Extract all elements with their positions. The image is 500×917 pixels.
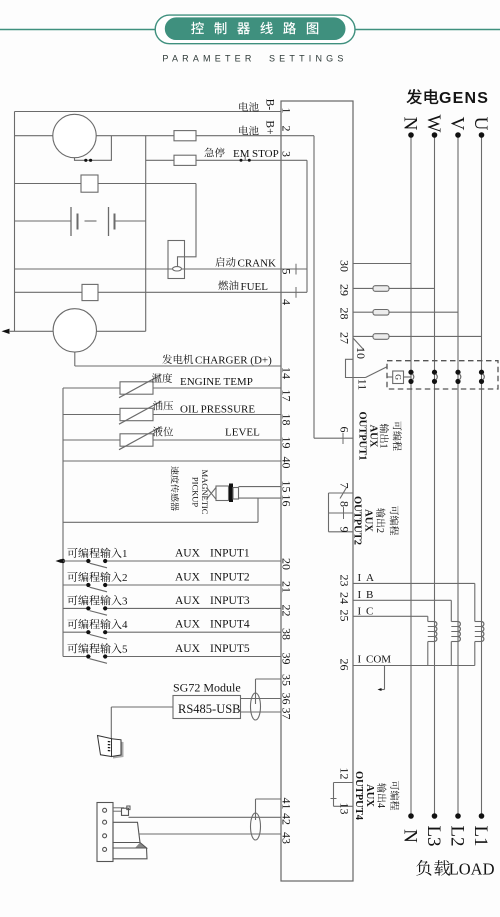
svg-text:4: 4 — [122, 619, 128, 631]
svg-text:3: 3 — [280, 151, 294, 157]
svg-text:1: 1 — [280, 108, 294, 114]
svg-text:9: 9 — [338, 527, 352, 533]
svg-text:OUTPUT4: OUTPUT4 — [353, 771, 364, 821]
svg-text:AUX: AUX — [175, 619, 201, 631]
svg-text:28: 28 — [338, 308, 352, 320]
svg-text:40: 40 — [280, 457, 294, 469]
svg-text:26: 26 — [338, 659, 352, 671]
svg-text:4: 4 — [375, 803, 386, 808]
svg-text:AUX: AUX — [175, 643, 201, 655]
svg-text:38: 38 — [280, 628, 294, 640]
svg-text:36: 36 — [280, 693, 294, 705]
svg-text:STOP: STOP — [252, 148, 279, 160]
svg-text:15: 15 — [280, 481, 294, 493]
svg-text:14: 14 — [280, 367, 294, 379]
svg-text:L3: L3 — [423, 825, 444, 846]
svg-text:SG72 Module: SG72 Module — [173, 681, 241, 695]
svg-text:4: 4 — [280, 299, 294, 305]
svg-text:25: 25 — [338, 610, 352, 622]
svg-text:10: 10 — [354, 347, 368, 359]
svg-text:MAGNETIC: MAGNETIC — [200, 470, 210, 515]
svg-text:21: 21 — [280, 581, 294, 593]
svg-text:PICKUP: PICKUP — [191, 477, 201, 508]
svg-text:23: 23 — [338, 575, 352, 587]
svg-text:A: A — [366, 572, 374, 584]
svg-text:LEVEL: LEVEL — [225, 427, 260, 439]
svg-text:N: N — [400, 829, 421, 843]
svg-text:2: 2 — [280, 126, 294, 132]
svg-text:1: 1 — [378, 444, 389, 449]
svg-text:V: V — [447, 117, 468, 131]
svg-text:20: 20 — [280, 558, 294, 570]
svg-text:19: 19 — [280, 437, 294, 449]
svg-text:ENGINE TEMP: ENGINE TEMP — [180, 376, 253, 388]
svg-text:39: 39 — [280, 653, 294, 665]
svg-text:2: 2 — [374, 528, 385, 533]
svg-text:AUX: AUX — [175, 548, 201, 560]
svg-text:AUX: AUX — [175, 595, 201, 607]
svg-text:11: 11 — [356, 379, 370, 391]
svg-text:AUX: AUX — [364, 784, 375, 807]
svg-text:27: 27 — [338, 332, 352, 344]
svg-text:B+: B+ — [264, 120, 276, 134]
svg-text:35: 35 — [280, 674, 294, 686]
svg-text:INPUT2: INPUT2 — [210, 572, 250, 584]
svg-text:I: I — [358, 572, 362, 584]
svg-text:COM: COM — [366, 654, 391, 666]
svg-text:OUTPUT1: OUTPUT1 — [357, 411, 368, 460]
svg-text:L2: L2 — [447, 825, 468, 846]
svg-text:1: 1 — [122, 548, 128, 560]
svg-text:18: 18 — [280, 414, 294, 426]
svg-text:L1: L1 — [470, 825, 491, 846]
svg-text:29: 29 — [338, 284, 352, 296]
svg-text:41: 41 — [280, 798, 294, 810]
svg-text:RS485-USB: RS485-USB — [178, 702, 241, 716]
svg-text:N: N — [400, 117, 421, 131]
svg-text:2: 2 — [122, 572, 128, 584]
svg-text:C: C — [366, 606, 373, 618]
svg-text:OIL PRESSURE: OIL PRESSURE — [180, 404, 255, 416]
svg-text:37: 37 — [280, 708, 294, 720]
svg-text:3: 3 — [122, 595, 128, 607]
svg-text:INPUT4: INPUT4 — [210, 619, 250, 631]
svg-text:8: 8 — [338, 501, 352, 507]
svg-text:INPUT5: INPUT5 — [210, 643, 250, 655]
svg-text:CRANK: CRANK — [238, 258, 277, 270]
svg-text:24: 24 — [338, 592, 352, 604]
svg-text:INPUT1: INPUT1 — [210, 548, 250, 560]
svg-text:AUX: AUX — [368, 425, 379, 448]
svg-text:16: 16 — [280, 495, 294, 507]
svg-text:AUX: AUX — [175, 572, 201, 584]
svg-text:W: W — [423, 115, 444, 133]
svg-text:I: I — [358, 654, 362, 666]
svg-text:5: 5 — [122, 644, 128, 656]
svg-text:PARAMETER SETTINGS: PARAMETER SETTINGS — [162, 54, 347, 64]
svg-text:I: I — [358, 589, 362, 601]
svg-text:42: 42 — [280, 813, 294, 825]
svg-text:FUEL: FUEL — [241, 281, 269, 293]
svg-text:22: 22 — [280, 605, 294, 617]
svg-text:I: I — [358, 606, 362, 618]
svg-text:G: G — [393, 374, 402, 380]
svg-text:AUX: AUX — [363, 509, 374, 532]
svg-text:LOAD: LOAD — [449, 859, 495, 878]
svg-text:INPUT3: INPUT3 — [210, 595, 250, 607]
svg-text:B-: B- — [264, 99, 276, 111]
svg-text:30: 30 — [338, 260, 352, 272]
svg-text:OUTPUT2: OUTPUT2 — [352, 496, 363, 545]
svg-text:6: 6 — [338, 427, 352, 433]
svg-text:12: 12 — [338, 768, 352, 780]
svg-text:5: 5 — [280, 269, 294, 275]
svg-text:GENS: GENS — [439, 90, 489, 107]
svg-text:CHARGER (D+): CHARGER (D+) — [195, 355, 272, 367]
svg-text:U: U — [470, 117, 491, 131]
svg-text:EM: EM — [233, 148, 250, 160]
svg-text:43: 43 — [280, 832, 294, 844]
svg-text:7: 7 — [338, 483, 352, 489]
svg-text:13: 13 — [338, 803, 352, 815]
svg-text:B: B — [366, 589, 373, 601]
svg-text:17: 17 — [280, 390, 294, 402]
